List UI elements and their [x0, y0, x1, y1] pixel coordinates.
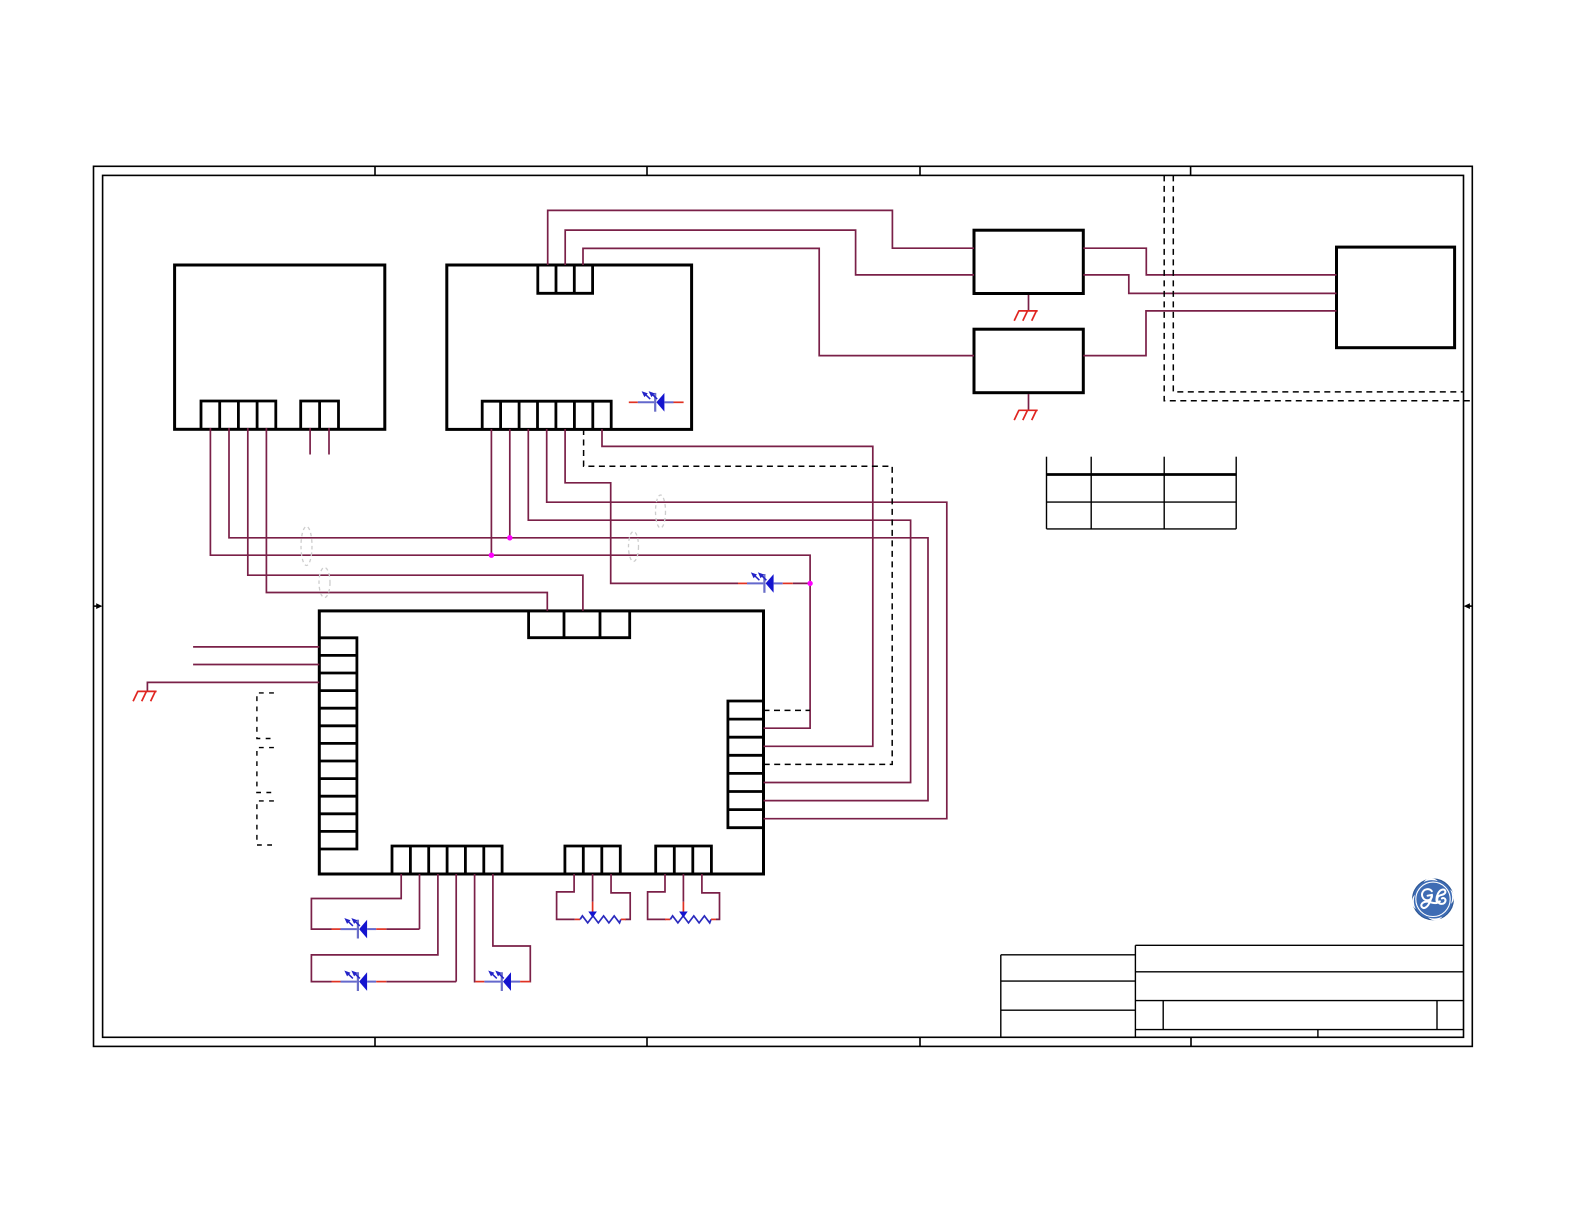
dashed bracket 3 (left of U3) — [257, 801, 274, 845]
wire pot R2 right leg — [702, 874, 720, 919]
wire U2 top cell2 to box A lower input — [565, 230, 974, 275]
wire LED D3 right to J8 p2 — [386, 928, 419, 930]
wire U3 J8 p5 to LED D5 left — [474, 874, 477, 982]
wire pot R1 wiper stem — [592, 874, 594, 902]
reference table header line (thick) — [1047, 473, 1237, 476]
connector J2 on U1 (2 pins) — [301, 401, 339, 429]
border zone tick top 4 — [1190, 166, 1192, 175]
wire U1.p2 to U3 right pin6 — [229, 428, 928, 801]
module U2 (top-middle block) — [447, 265, 692, 429]
wire U1.p3 to U3 top cell2 — [248, 428, 583, 611]
connector J7 on U3 right (7 cells) — [728, 701, 764, 828]
wire box A ground stem — [1028, 295, 1030, 310]
dashed bracket 2 (left of U3) — [257, 748, 274, 793]
wire U2 bottom p4 to U3 right pin7 — [547, 429, 947, 819]
GE logo — [1412, 878, 1454, 920]
wire box B ground stem — [1028, 394, 1030, 410]
cable group ellipse 2 — [319, 568, 330, 598]
wires (maroon) — [147, 210, 1336, 981]
wire stub U1 J2 pin1 — [309, 428, 311, 455]
connector J4 on U2 bottom (7 pins) — [482, 401, 611, 429]
potentiometer R1 body — [575, 916, 626, 923]
wire left input 1 to U3 left pin1 — [193, 646, 319, 648]
wire U1.p4 to U3 top cell1 — [266, 428, 547, 611]
connector J10 on U3 bottom (3 cells) — [656, 846, 712, 874]
border center arrow right — [1464, 603, 1473, 609]
dashed stub U3 right pin1 — [764, 709, 811, 711]
wire pot R2 wiper stem — [682, 874, 684, 902]
inner border frame — [103, 175, 1464, 1037]
border center arrow left — [94, 603, 103, 609]
LED D1 (inside U2) — [629, 392, 684, 412]
connector J6 on U3 left (12 cells) — [319, 638, 357, 849]
connector J8 on U3 bottom (6 cells) — [392, 846, 502, 874]
wire U2 bottom p5 to LED D2 — [565, 429, 738, 583]
border zone tick top 2 — [646, 166, 648, 175]
LED D5 (bottom middle) — [475, 971, 530, 991]
title block left table — [1001, 955, 1136, 1038]
border zone tick bottom 1 — [374, 1037, 376, 1046]
central module U3 — [319, 611, 763, 874]
wire U2 bottom p2 drop — [509, 429, 511, 538]
wire U3 J8 p1 to LED D3 left — [311, 874, 401, 929]
border zone tick bottom 4 — [1190, 1037, 1192, 1046]
connector J5 on U3 top (3 cells) — [529, 611, 630, 638]
border zone tick bottom 3 — [919, 1037, 921, 1046]
wire U2 bottom p7 to U3 right pin3 — [602, 429, 873, 746]
outer border frame — [94, 166, 1473, 1046]
wire left input 2 to U3 left pin2 — [193, 664, 319, 666]
box A (top right small module) — [974, 230, 1083, 293]
border zone tick top 1 — [374, 166, 376, 175]
wire U1.p1 to U3 right pin2 — [210, 428, 810, 728]
wire box A out2 to box C in2 — [1083, 275, 1336, 294]
wire ground net to U3 left pin3 — [147, 682, 319, 691]
reference table (middle right) — [1047, 457, 1237, 529]
dashed frame outer (top right) — [1164, 175, 1472, 400]
box C (far right module) — [1337, 247, 1455, 348]
wire U2 top cell3 to box B input — [583, 248, 974, 355]
wire U2 top cell1 to box A upper input — [548, 210, 974, 265]
module U1 (top-left block) — [175, 265, 385, 429]
dashed bracket 1 (left of U3) — [257, 693, 274, 739]
wire U3 J8 p3 to LED D4 left — [311, 874, 438, 982]
potentiometer R1 wiper — [588, 902, 597, 918]
box B (second right small module) — [974, 329, 1083, 393]
LED D2 (middle) — [738, 573, 793, 593]
wire U2 bottom p1 drop — [490, 429, 492, 555]
cable group ellipse 4 — [656, 495, 666, 528]
ground G1 (below box A) — [1014, 311, 1037, 321]
cable group ellipse 1 — [301, 527, 312, 566]
wire stub U1 J2 pin2 — [328, 428, 330, 455]
connector J3 on U2 top (3 pins) — [538, 265, 593, 293]
junction node LED D2 right — [807, 581, 812, 586]
LED D4 (bottom left lower) — [332, 971, 387, 991]
wire pot R1 right leg — [611, 874, 630, 919]
wire box B out to box C in3 — [1083, 311, 1336, 356]
dashed frame inner (top right) — [1173, 175, 1463, 392]
title block right table — [1135, 945, 1463, 1037]
wire U2 bottom p3 to U3 right pin5 — [528, 429, 910, 783]
potentiometer R2 body — [665, 916, 716, 923]
cable group ellipse 3 — [629, 532, 639, 562]
wire LED D4 right to J8 p4 — [386, 981, 456, 983]
potentiometer R2 wiper — [679, 902, 688, 918]
wire pot R2 left leg — [648, 874, 666, 919]
wire U3 J8 p4 drop — [455, 874, 457, 982]
wire LED D2 right to junction — [793, 582, 810, 584]
dashed wire U2 bottom p6 to U3 right pin4 — [584, 429, 893, 764]
connector J9 on U3 bottom (3 cells) — [565, 846, 620, 874]
connector J1 on U1 (4 pins) — [201, 401, 276, 429]
wire pot R1 left leg — [557, 874, 575, 919]
wire U3 J8 p6 to LED D5 right — [493, 874, 530, 982]
junction node U1p2/U2p2 — [507, 535, 512, 540]
wire box A out1 to box C in1 — [1083, 248, 1336, 275]
ground G2 (below box B) — [1014, 410, 1037, 420]
border zone tick top 3 — [919, 166, 921, 175]
wire U3 J8 p2 drop — [419, 874, 421, 929]
border zone tick bottom 2 — [646, 1037, 648, 1046]
LED D3 (bottom left upper) — [332, 919, 387, 939]
ground G3 (left area) — [133, 691, 157, 701]
junction node J2p1/U1p1 — [489, 553, 494, 558]
